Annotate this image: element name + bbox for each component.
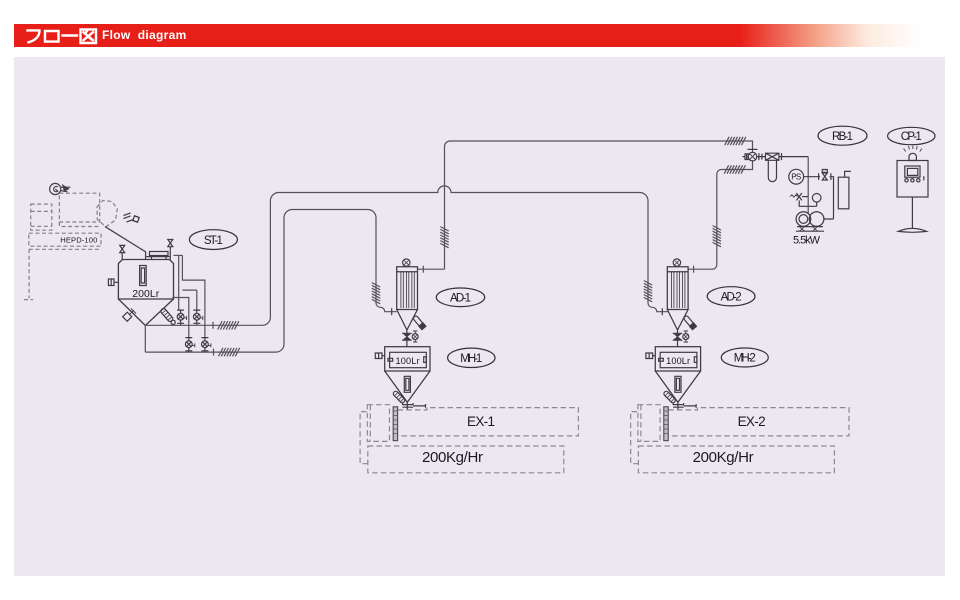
svg-text:AD-1: AD-1 bbox=[450, 293, 471, 305]
label RB-1 bbox=[818, 126, 867, 145]
ST-1 lid bbox=[147, 252, 170, 260]
header title フロー図 drawn as strokes bbox=[26, 24, 186, 47]
relief valve with spring bbox=[790, 193, 817, 206]
wire conveying line 2 (lower, to AD-1) bbox=[145, 210, 396, 353]
ST-1 discharge valve manifold wires bbox=[172, 255, 205, 352]
ST-1 level gauge bbox=[140, 266, 147, 286]
dispensing valve 1b bbox=[193, 310, 203, 323]
extruder EX-2 dashed outline bbox=[631, 405, 849, 473]
pressure switch PS bbox=[789, 169, 820, 184]
flange tick line1 bbox=[212, 322, 214, 329]
svg-text:MH-2: MH-2 bbox=[734, 353, 756, 365]
suction nozzle air slits bbox=[124, 213, 134, 222]
dust collector AD-2 bbox=[667, 259, 696, 347]
図 bbox=[81, 29, 97, 43]
label MH-2 bbox=[721, 348, 768, 367]
svg-text:ST-1: ST-1 bbox=[204, 235, 223, 247]
dispensing valve 2a bbox=[185, 338, 195, 351]
ロ bbox=[45, 31, 59, 42]
wire vacuum header from AD-1 bbox=[418, 141, 753, 269]
pressure gauge bbox=[812, 194, 821, 207]
svg-text:200Lr: 200Lr bbox=[132, 288, 160, 300]
svg-text:HEPD-100: HEPD-100 bbox=[60, 236, 97, 245]
svg-text:MH-1: MH-1 bbox=[460, 353, 482, 365]
hose hatch line2 bbox=[219, 348, 240, 356]
svg-text:EX-1: EX-1 bbox=[467, 414, 495, 429]
roots blower RB-1 bbox=[796, 212, 824, 232]
label AD-1 bbox=[436, 288, 484, 307]
ST-1 cone drain valve bbox=[123, 309, 136, 322]
svg-text:EX-2: EX-2 bbox=[738, 414, 766, 429]
flange tick AD-2 outlet bbox=[693, 266, 695, 273]
svg-text:200Kg/Hr: 200Kg/Hr bbox=[422, 449, 483, 466]
svg-text:RB-1: RB-1 bbox=[832, 131, 853, 143]
weighing hopper MH-2 bbox=[646, 347, 701, 410]
hose hatch header 2 before valve bbox=[724, 165, 745, 173]
hose hatch header before valve bbox=[725, 137, 746, 145]
ー bbox=[63, 34, 78, 36]
flange tick AD-1 outlet bbox=[422, 266, 424, 273]
label AD-2 bbox=[707, 287, 755, 306]
label MH-1 bbox=[448, 348, 495, 367]
flange tick AD-1 inlet bbox=[391, 308, 393, 315]
vacuum feeder HEPD-100 (dashed) bbox=[29, 193, 118, 249]
hose hatch AD-1 vacuum riser bbox=[440, 227, 448, 248]
weighing hopper MH-1 bbox=[375, 347, 430, 410]
control panel CP-1 beacon rays bbox=[904, 146, 922, 152]
svg-text:CP-1: CP-1 bbox=[901, 131, 922, 143]
ST-1 top-right vent valve bbox=[168, 240, 173, 260]
vacuum relief valve bbox=[819, 170, 834, 220]
hose hatch AD-2 vacuum riser bbox=[713, 226, 721, 247]
control panel CP-1 cabinet bbox=[897, 161, 928, 198]
dispensing valve 1a bbox=[177, 310, 187, 323]
label CP-1 bbox=[888, 127, 935, 144]
svg-text:AD-2: AD-2 bbox=[721, 292, 742, 304]
svg-text:5.5kW: 5.5kW bbox=[793, 234, 821, 246]
flange tick line2 bbox=[213, 349, 215, 356]
flange tick AD-2 inlet bbox=[661, 308, 663, 315]
ST-1 discharge screw feeder bbox=[160, 308, 177, 326]
suction nozzle damper plate bbox=[133, 216, 139, 222]
フ bbox=[28, 30, 40, 42]
header red bar bbox=[14, 24, 921, 47]
dispensing valve 2b bbox=[201, 338, 211, 351]
svg-text:100Lr: 100Lr bbox=[396, 356, 420, 366]
feeder blower motor bbox=[50, 183, 71, 194]
svg-text:200Kg/Hr: 200Kg/Hr bbox=[693, 449, 754, 466]
wire conveying line 1 (upper, to AD-2) bbox=[145, 186, 667, 325]
silencer bbox=[838, 171, 851, 208]
svg-text:PS: PS bbox=[791, 173, 801, 182]
wire filter to blower bbox=[807, 157, 809, 214]
hose hatch AD-2 riser bbox=[644, 281, 652, 302]
ST-1 top-left vent valve bbox=[120, 245, 125, 259]
extruder EX-1 dashed outline bbox=[360, 405, 578, 473]
label ST-1 bbox=[189, 230, 237, 250]
control panel CP-1 stand bbox=[898, 197, 926, 232]
suction filter bbox=[766, 153, 809, 182]
hose hatch AD-1 riser bbox=[372, 283, 380, 304]
ST-1 side port bbox=[108, 279, 118, 286]
wire vacuum header from AD-2 bbox=[688, 161, 753, 269]
suction pipe to tank bbox=[105, 227, 146, 260]
svg-text:100Lr: 100Lr bbox=[666, 356, 690, 366]
storage tank ST-1 body bbox=[118, 260, 173, 326]
dust collector AD-1 bbox=[397, 259, 426, 347]
control panel CP-1 beacon lamp bbox=[909, 153, 916, 160]
changeover valve at blower suction bbox=[743, 149, 766, 161]
HEPD-100 dashed drop line bbox=[24, 249, 33, 299]
hose hatch line1 bbox=[218, 321, 239, 329]
